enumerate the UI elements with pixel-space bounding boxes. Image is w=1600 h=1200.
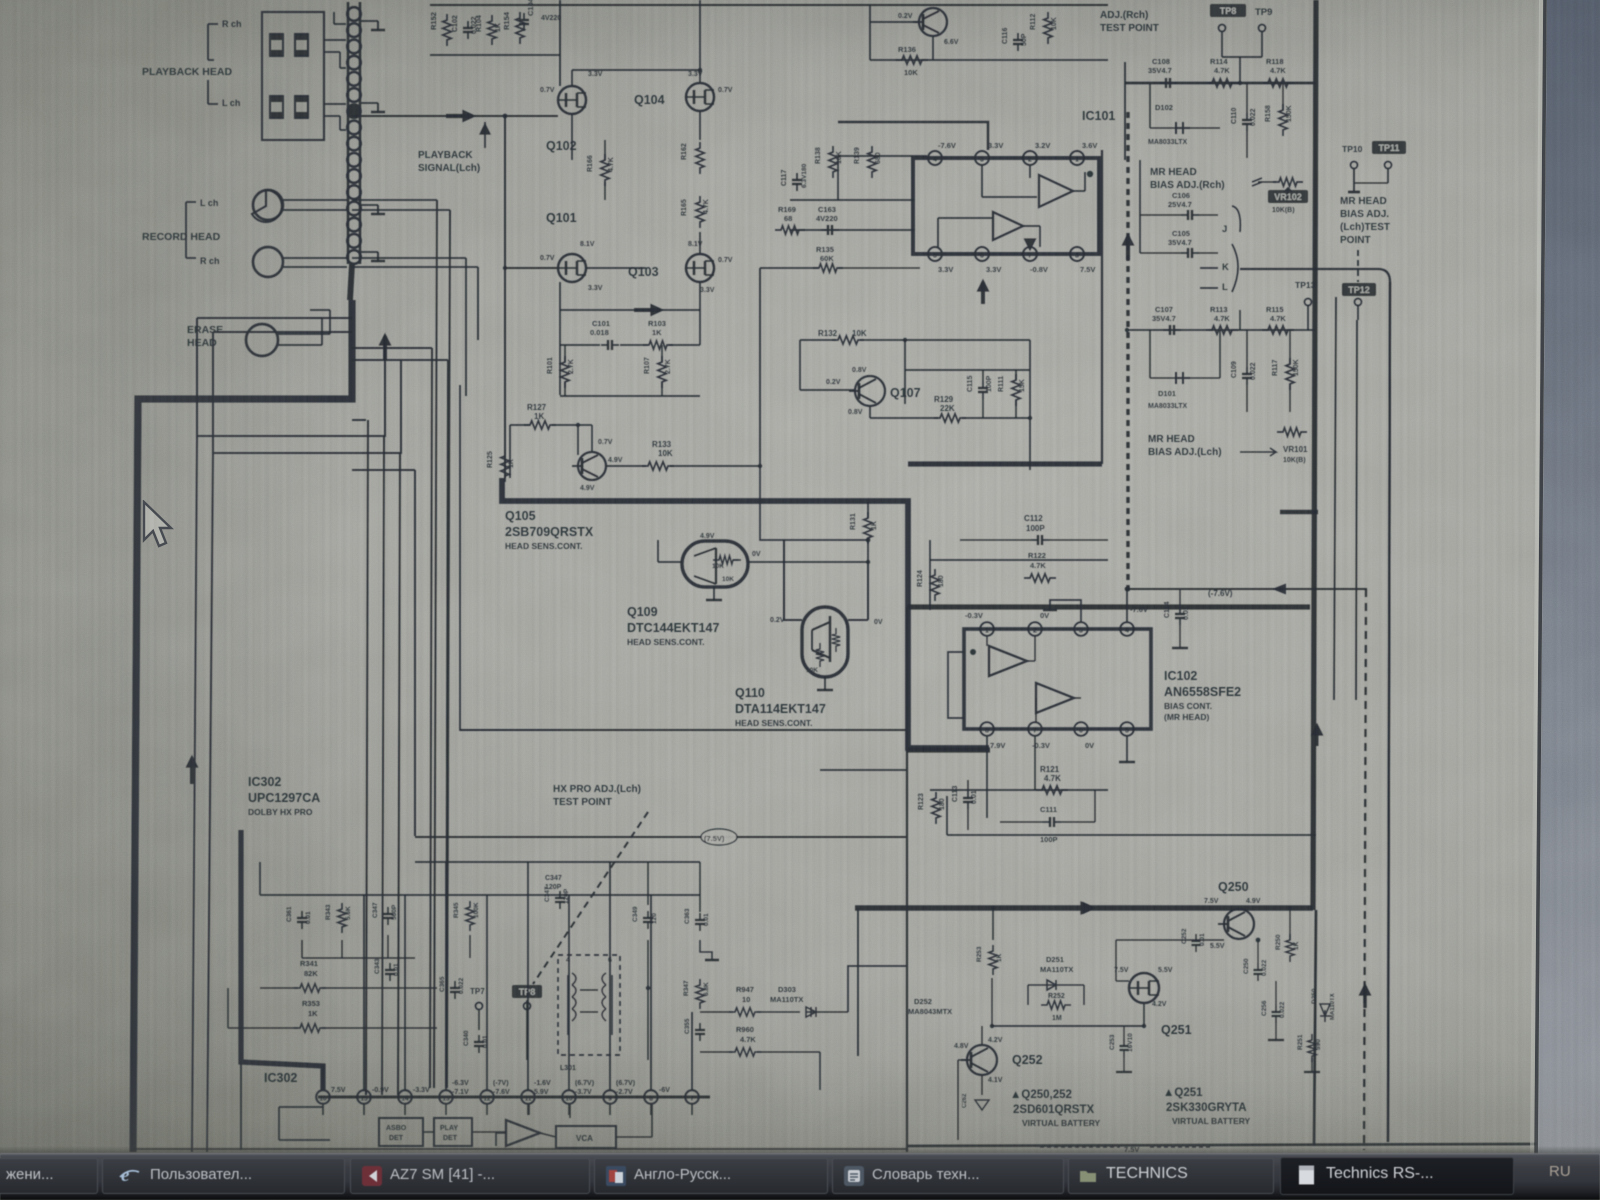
ic302 pin risers <box>322 1066 324 1090</box>
ic302 pin 13 <box>439 1090 453 1104</box>
wire right thin verticals <box>1334 297 1336 700</box>
transistor Q106 <box>919 8 947 36</box>
ic101 pin 1 top <box>1070 151 1084 165</box>
opamp U2a <box>989 646 1027 676</box>
taskbar button AZ7 SM <box>350 1158 590 1194</box>
wire ic102 pin3 ground hook <box>1050 600 1081 622</box>
resistor R129 <box>934 414 966 422</box>
node arrow dashed <box>1126 236 1130 260</box>
wire record R to bus <box>352 209 450 211</box>
testpoint TP8 badge <box>512 985 542 998</box>
capacitor C361 <box>301 911 303 918</box>
tray RU <box>1549 1163 1571 1180</box>
wire block bottom <box>907 1144 1537 1146</box>
wire bus vertical 3 <box>398 453 400 1095</box>
wire lch bias rail <box>1128 329 1315 331</box>
wire battery mid rail <box>992 1025 1143 1027</box>
wire bold right border <box>1313 0 1316 910</box>
resistor R139 <box>868 146 876 178</box>
taskbar button polzovatel <box>102 1158 345 1194</box>
transistor Q101 <box>558 254 586 282</box>
wire tp10 tp11 stems <box>1351 162 1358 169</box>
testpoint TP badge top <box>1210 4 1246 17</box>
wire q252 links <box>981 1026 983 1045</box>
capacitor C256 <box>1275 1005 1277 1012</box>
resistor R252 <box>1041 1001 1071 1009</box>
capacitor C349 <box>647 911 649 918</box>
wire c101 r103 rail <box>560 344 600 346</box>
wire head sens box bottom <box>460 729 906 731</box>
resistor R347 <box>696 979 704 1009</box>
resistor R960 <box>729 1048 761 1056</box>
wire q102 source down <box>571 114 573 160</box>
wire erase stub lines <box>310 309 330 311</box>
ic302 pin 8 <box>644 1090 658 1104</box>
wire dashed ic101 feed <box>1126 112 1129 590</box>
resistor R166 <box>601 154 609 186</box>
wire bold ic102 bottom rail <box>906 747 990 752</box>
wire q101 q103 bottom mesh <box>560 309 700 311</box>
wire y55 top link <box>430 54 560 56</box>
wire q104 drain top <box>699 0 701 70</box>
wire ic101 left feeds <box>790 199 915 201</box>
resistor R158 <box>1279 104 1287 136</box>
taskbar <box>0 1146 1600 1154</box>
capacitor C109 <box>1246 367 1248 374</box>
ic102 internal wires <box>986 636 988 646</box>
resistor R131 <box>864 512 872 544</box>
diode D250 <box>1320 1004 1330 1022</box>
wire step to bus 5 <box>352 347 432 349</box>
wire q250 links <box>1238 908 1240 910</box>
resistor R136 <box>896 56 928 64</box>
wire q107 top rail <box>905 369 1030 371</box>
diode D101 <box>1176 372 1190 384</box>
transformer L301 dashed box <box>558 955 620 1055</box>
wire r133 to r131 <box>760 466 868 540</box>
resistor R104 <box>488 15 496 45</box>
erase head <box>246 324 278 356</box>
connector pin 9 <box>347 137 361 151</box>
record head R ch <box>253 247 283 277</box>
capacitor C117 <box>796 173 798 180</box>
wire q105 r127 link verticals <box>509 425 511 478</box>
capacitor C355 <box>699 1023 701 1030</box>
resistor R115 <box>1262 326 1294 334</box>
capacitor C104 <box>523 13 525 20</box>
wire ic302 bold feed <box>241 830 323 1090</box>
connector pin 6 <box>347 88 361 102</box>
resistor R250 <box>1286 934 1294 962</box>
resistor R101 <box>561 356 569 388</box>
wire rch bias rail <box>1125 82 1315 85</box>
connector pin 14 <box>347 218 361 232</box>
wire step to bus 4 <box>352 469 415 471</box>
potentiometer VR102 <box>1273 178 1303 186</box>
resistor R117 <box>1286 358 1294 390</box>
wire mesh links <box>301 940 303 958</box>
ic101 pin 8 bottom <box>1070 247 1084 261</box>
resistor R132 <box>832 336 864 344</box>
resistor R103 <box>643 341 673 349</box>
wire ic302 top mesh rail <box>260 894 700 896</box>
node playback signal arrow <box>446 114 472 118</box>
record head L ch <box>252 190 282 222</box>
resistor R253 <box>989 945 997 975</box>
ic101 pin 2 top <box>1023 151 1037 165</box>
box ASBO DET <box>379 1118 423 1146</box>
resistor R165 <box>696 196 704 228</box>
taskbar button TECHNICS folder <box>1068 1158 1274 1194</box>
wire below-row links <box>423 1131 434 1133</box>
capacitor C113 <box>967 791 969 798</box>
wire record to mesh 3 <box>352 257 466 259</box>
transistor Q104 <box>686 83 714 111</box>
resistor R112 <box>1044 12 1052 44</box>
ic302 pin 16 <box>316 1090 330 1104</box>
resistor R162 <box>696 142 704 174</box>
capacitor C116 <box>1017 33 1019 40</box>
ground hook c363 <box>700 940 712 960</box>
playback head R ch element <box>270 34 283 56</box>
resistor R947 <box>729 1008 761 1016</box>
resistor R127 <box>524 421 556 429</box>
resistor R123 <box>932 792 940 824</box>
wire playback head to connector <box>324 39 346 41</box>
wire ic102 left loop <box>948 652 964 718</box>
resistor R343 <box>338 903 346 933</box>
wire bold block outline <box>907 604 1310 609</box>
resistor R124 <box>931 569 939 601</box>
diode D251 <box>1047 980 1062 990</box>
wire bold frame left <box>133 300 352 1152</box>
node arrow ic101 pin6 <box>981 282 985 304</box>
wire pin stubs down <box>322 1104 324 1115</box>
resistor R152 <box>443 14 451 46</box>
connector J pin column <box>347 2 350 264</box>
resistor R113 <box>1206 326 1238 334</box>
wire c112 rail <box>930 559 1108 561</box>
wire erase head to column <box>278 333 330 335</box>
potentiometer VR101 <box>1277 428 1307 436</box>
resistor R122 <box>1024 574 1056 582</box>
transistor Q109 <box>682 541 748 587</box>
box PLAY DET <box>434 1118 472 1146</box>
ic302 pin 15 <box>357 1090 371 1104</box>
wire vca riser <box>569 1104 571 1118</box>
capacitor C108 <box>1159 82 1166 84</box>
connector pin 13 <box>347 202 361 216</box>
wire pin bus verticals up <box>365 1090 367 1095</box>
ic302 pin row rail <box>318 1096 710 1099</box>
bottom pre-taskbar shadow <box>0 0 1 1</box>
wire q104 source down <box>699 111 701 140</box>
resistor R118 <box>1262 79 1294 87</box>
ground q252 <box>975 1100 989 1110</box>
wire bus vertical 5 <box>430 348 432 1088</box>
wire q110 box <box>784 540 802 620</box>
wire q102 gate <box>352 115 558 117</box>
highlight strip left of edge <box>1532 0 1541 1165</box>
node arrow right border <box>1316 726 1319 746</box>
capacitor C102 <box>467 21 469 28</box>
capacitor C343 <box>389 963 391 970</box>
wire block right border <box>1314 910 1316 1146</box>
capacitor C105 <box>1181 252 1188 254</box>
wire dolby to battery block <box>848 966 906 1012</box>
transistor Q252 <box>967 1045 997 1075</box>
capacitor C252 <box>1195 934 1197 941</box>
wire dashed battery vertical <box>1364 589 1366 1150</box>
wire q101 q103 gate link <box>586 267 646 269</box>
wire q101 path vertical <box>504 116 506 478</box>
capacitor C115 <box>982 381 984 388</box>
ic302 pin 11 <box>521 1090 535 1104</box>
node arrow on staircase <box>190 758 194 784</box>
wire mesh right verticals <box>1029 340 1031 470</box>
capacitor C365 <box>454 981 456 988</box>
capacitor C110 <box>1246 113 1248 120</box>
capacitor C253 <box>1123 1039 1125 1046</box>
wire q107 mesh <box>799 340 801 390</box>
connector pin 12 <box>347 185 361 199</box>
wire q251 links <box>1143 1004 1145 1026</box>
wire minus7.6 rail <box>1128 588 1367 590</box>
node arrow q103 <box>634 308 660 312</box>
wire bold vr101 stub <box>1280 510 1318 515</box>
wire bold branch 464 <box>908 461 1102 466</box>
connector right stubs <box>361 20 378 22</box>
wire bus vertical 6 <box>446 360 448 1088</box>
transistor Q110 <box>802 607 848 677</box>
taskbar button slovar <box>832 1158 1064 1194</box>
resistor R353 <box>294 1024 326 1032</box>
resistor R111 <box>1012 374 1020 406</box>
connector pin 2 <box>347 23 361 37</box>
capacitor C107 <box>1163 329 1170 331</box>
node arrow ic101 pin7 <box>1029 247 1031 249</box>
wire connector bold lower <box>350 264 352 300</box>
box VCA <box>556 1126 616 1148</box>
ic302 pin 12 <box>480 1090 494 1104</box>
wire battery right links <box>1289 956 1291 1040</box>
wire lower mesh rail <box>560 395 700 397</box>
wire bold battery top rail <box>855 905 1313 911</box>
ic102 pin 2 top <box>1028 622 1042 636</box>
ic302 pin 9 <box>603 1090 617 1104</box>
transistor Q107 <box>855 376 885 406</box>
resistor R169 <box>775 226 805 234</box>
connector pin 8 <box>347 121 361 135</box>
ic101 internal wires <box>981 165 983 197</box>
resistor R345 <box>466 901 474 931</box>
ic101 pin 5 bottom <box>928 247 942 261</box>
wire right box vertical <box>1388 282 1390 1142</box>
wire q103 drain <box>699 232 701 254</box>
ic102 pin 1 top <box>980 622 994 636</box>
resistor R125 <box>501 450 509 482</box>
wire staircase A <box>197 317 352 319</box>
capacitor C347a <box>387 907 389 914</box>
taskbar button anglo-russk <box>594 1158 828 1194</box>
resistor R135 <box>813 264 843 272</box>
wire hx pro callout <box>533 812 648 984</box>
wire ic102 lower right rail <box>947 834 1316 836</box>
connector pin 4 <box>347 56 361 70</box>
testpoint TP11 badge <box>1372 141 1406 154</box>
ic101 pin 4 top <box>928 151 942 165</box>
wire staircase B <box>213 331 352 333</box>
diode D102 <box>1176 122 1190 134</box>
playback head L ch element <box>270 96 283 118</box>
wire dolby right rail <box>647 940 649 1060</box>
junction dots <box>503 266 507 270</box>
taskbar button Technics RS active <box>1280 1157 1514 1195</box>
opamp U2b <box>1036 683 1074 713</box>
wire tp9 stems <box>1219 25 1226 32</box>
wire q109 stub <box>713 587 715 600</box>
node arrow on -7.6 rail <box>1272 584 1286 595</box>
page right edge line <box>1536 0 1545 1165</box>
wire bus vertical 1 <box>366 420 368 1095</box>
ic101 pin 6 bottom <box>975 247 989 261</box>
wire bus vertical 2 <box>382 436 384 1095</box>
label TP13 wire <box>1239 310 1241 330</box>
wire q106 links <box>870 21 919 23</box>
wire bus vertical 4 <box>414 470 416 836</box>
node arrow dashed battery <box>1363 986 1366 1008</box>
mouse cursor <box>140 500 174 552</box>
uneven illumination: left column shadow <box>0 0 1 1</box>
capacitor C111 <box>1043 821 1050 823</box>
ic102 pin 3 top <box>1074 622 1088 636</box>
resistor R121 <box>1036 786 1068 794</box>
opamp dolby <box>506 1120 540 1146</box>
wire q101 gate <box>505 267 558 269</box>
transistor Q251 fet <box>1129 973 1159 1003</box>
wire ic101 topleft feed <box>838 122 988 150</box>
ic IC102 box <box>964 629 1151 729</box>
capacitor C250 <box>1257 963 1259 970</box>
desk band right of page <box>1538 0 1600 1165</box>
wire r135 up link <box>759 268 761 466</box>
connector pin 1 <box>347 7 361 21</box>
resistor R251 <box>1308 1034 1316 1062</box>
resistor R114 <box>1206 79 1238 87</box>
wire ic102 pin5 down <box>1126 736 1128 762</box>
wire top rail <box>430 4 1108 6</box>
ic102 pin 8 bottom <box>980 722 994 736</box>
capacitor C101 <box>601 344 608 346</box>
resistor R133 <box>642 462 674 470</box>
capacitor C112 <box>1031 539 1038 541</box>
resistor R341 <box>294 984 326 992</box>
wire record L to bus <box>352 199 437 201</box>
node arrow on bus <box>383 336 387 360</box>
capacitor C106 <box>1181 214 1188 216</box>
ic102 pin 4 top <box>1120 622 1134 636</box>
wire rounded corner box <box>1240 269 1390 1142</box>
wire ic102 pin4 up <box>1126 589 1128 622</box>
wire lch tp dash stem <box>1357 250 1359 282</box>
connector pin 16 <box>347 250 361 264</box>
ic302 pin 14 <box>398 1090 412 1104</box>
testpoint TP12 badge <box>1342 283 1376 296</box>
ic IC101 box <box>913 158 1099 254</box>
wire branch up to ic101 <box>1101 150 1103 464</box>
connector pin 11 <box>347 169 361 183</box>
connector pin 7 <box>347 104 361 118</box>
connector pin 10 <box>347 153 361 167</box>
ic101 pin 3 top <box>975 151 989 165</box>
wire r121 rail <box>930 789 1108 791</box>
taskbar button zheni <box>0 1158 98 1194</box>
capacitor C347b <box>559 891 561 898</box>
transistor Q102 <box>558 86 586 114</box>
capacitor C340 <box>478 1035 480 1042</box>
wire record to mesh 4 <box>352 266 478 268</box>
resistor R138 <box>829 146 837 178</box>
transistor Q250 <box>1224 909 1254 939</box>
wire record heads to connector <box>283 199 347 201</box>
ic102 pin 5 bottom <box>1120 722 1134 736</box>
ic101 pin 7 bottom <box>1023 247 1037 261</box>
connector pin 3 <box>347 40 361 54</box>
wire ic302 left border <box>240 1062 242 1150</box>
ic302 pin 7 <box>685 1090 699 1104</box>
wire bold lch rail <box>502 478 989 748</box>
wire step to bus 6 <box>352 359 448 361</box>
opamp U1a <box>1039 175 1073 207</box>
playback head box <box>262 12 324 140</box>
transistor Q103 <box>686 254 714 282</box>
wire q109 q110 link <box>748 561 868 563</box>
ic102 pin 6 bottom <box>1074 722 1088 736</box>
wire Q105 box <box>460 385 560 730</box>
capacitor C114 <box>1179 607 1181 614</box>
wire staircase C <box>352 419 366 421</box>
ic102 pin 7 bottom <box>1028 722 1042 736</box>
connector pin 15 <box>347 234 361 248</box>
ic302 pin 10 <box>562 1090 576 1104</box>
connector pin 5 <box>347 72 361 86</box>
wire 7.5V rail <box>415 836 906 838</box>
diode D303 <box>806 1007 816 1017</box>
wire q110 stub <box>824 677 826 690</box>
resistor R107 <box>658 356 666 388</box>
capacitor C363 <box>699 913 701 920</box>
node arrow battery rail <box>1091 907 1093 909</box>
capacitor C163 <box>821 229 828 231</box>
resistor R154 <box>516 12 524 44</box>
wire q102-q104 drain <box>571 70 573 86</box>
opamp U1b <box>993 212 1023 240</box>
transistor Q105 <box>578 452 606 480</box>
